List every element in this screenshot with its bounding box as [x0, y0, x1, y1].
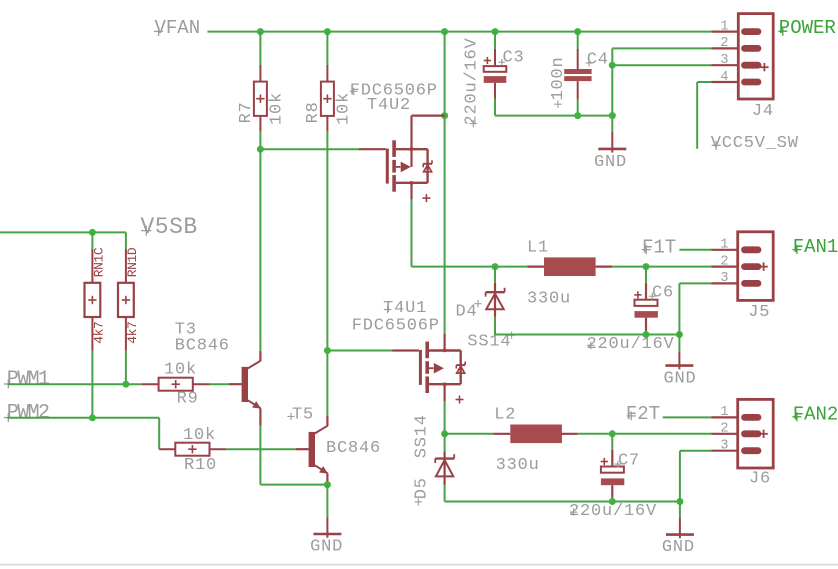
svg-text:T4U1: T4U1	[383, 299, 427, 318]
svg-text:POWER: POWER	[779, 17, 836, 39]
svg-text:FDC6506P: FDC6506P	[352, 316, 440, 335]
label POWER	[778, 17, 836, 39]
node junction RN1C/PWM2	[89, 414, 96, 421]
label T4U2 part FDC6506P	[350, 81, 438, 100]
ground GND4	[666, 502, 694, 539]
svg-text:1: 1	[720, 19, 728, 34]
label T4U1	[383, 299, 427, 318]
wire J4 pin4 VCC5V_SW	[697, 82, 711, 149]
node junction C7 tap	[609, 430, 616, 437]
wire R7 top	[259, 32, 261, 65]
label R9	[177, 389, 199, 408]
transistor U1 T4U2 FDC6506P p-mosfet	[359, 140, 432, 202]
wire L2 output to J6 pin2	[578, 433, 712, 435]
node junction R8/T5/gate	[324, 347, 331, 354]
label C3 value 220u/16V	[462, 37, 481, 127]
svg-text:D5: D5	[413, 477, 432, 499]
wire C4 top	[577, 32, 579, 49]
ground GND1	[598, 132, 626, 153]
wire T4U2 source down	[411, 200, 413, 267]
svg-text:GND: GND	[664, 369, 697, 388]
resistor R9 10k	[142, 378, 210, 391]
label L1 value 330u	[527, 290, 571, 309]
svg-text:L1: L1	[527, 239, 549, 258]
wire GND net vertical	[611, 65, 613, 131]
svg-text:T4U2: T4U2	[367, 96, 411, 115]
svg-text:4: 4	[720, 70, 728, 85]
wire VFAN horizontal bus	[208, 31, 712, 33]
wire D5 top	[444, 434, 446, 452]
connector J6 FAN2 header	[712, 399, 774, 468]
resistor R7	[254, 65, 267, 132]
label L2	[494, 406, 516, 425]
svg-text:330u: 330u	[496, 456, 540, 475]
wire D4 bottom	[495, 317, 679, 335]
label VFAN	[154, 17, 200, 39]
svg-text:GND: GND	[662, 538, 695, 557]
label D4	[456, 300, 482, 321]
label FAN2	[792, 403, 838, 425]
svg-text:GND: GND	[310, 537, 343, 556]
node junction C7 bottom	[609, 498, 616, 505]
svg-text:3: 3	[720, 439, 728, 454]
label D5 value SS14	[413, 414, 432, 458]
label FAN1	[792, 236, 838, 258]
wire L2 input row	[445, 433, 494, 435]
transistor T5 BC846 npn	[296, 416, 328, 482]
node junction C4 bottom	[574, 112, 581, 119]
capacitor C7 (220u/16V electrolytic)	[601, 434, 625, 502]
svg-text:1: 1	[720, 238, 728, 253]
svg-text:J5: J5	[748, 303, 770, 322]
svg-text:R10: R10	[184, 456, 217, 475]
wire D4 top	[494, 267, 496, 283]
node junction GND4 tap	[676, 498, 683, 505]
node junction T5 emitter / GND	[324, 481, 331, 488]
wire T4U1 source down	[444, 401, 446, 434]
diode D4 SS14 schottky	[486, 283, 505, 317]
label C7 value 220u/16V	[569, 502, 657, 521]
transistor T3 BC846 npn	[229, 351, 261, 426]
svg-text:SS14: SS14	[413, 414, 432, 458]
resistor RN1D 4k7	[118, 232, 134, 350]
svg-text:4k7: 4k7	[91, 322, 106, 344]
label RN1C value 4k7	[91, 322, 106, 344]
label F2T	[626, 403, 660, 425]
wire C3 bottom	[495, 99, 612, 116]
wire F1T to J5 pin1	[679, 249, 711, 251]
svg-text:C4: C4	[587, 51, 609, 70]
svg-text:4k7: 4k7	[125, 322, 140, 344]
diode D5 SS14 schottky	[435, 451, 454, 485]
wire R7 bottom	[259, 132, 261, 150]
label C4	[586, 51, 609, 70]
label D5	[413, 477, 432, 505]
node junction D4 tap	[492, 263, 499, 270]
svg-text:VCC5V_SW: VCC5V_SW	[711, 134, 799, 153]
capacitor C4 (100n)	[564, 49, 591, 100]
svg-text:FAN1: FAN1	[793, 236, 838, 258]
svg-text:BC846: BC846	[175, 336, 230, 355]
label T5 part BC846	[326, 439, 381, 458]
svg-text:10k: 10k	[268, 92, 287, 125]
label R7 value 10k	[268, 92, 287, 125]
label T5	[287, 405, 314, 424]
wire J6 pin3 net	[680, 451, 712, 502]
svg-text:R8: R8	[304, 101, 323, 123]
label F1T	[642, 236, 677, 258]
svg-text:FAN2: FAN2	[793, 403, 838, 425]
svg-text:220u/16V: 220u/16V	[587, 335, 675, 354]
wire V5SB row	[0, 231, 126, 233]
label R9 value 10k	[164, 360, 197, 379]
svg-text:J6: J6	[749, 470, 771, 489]
label L2 value 330u	[496, 456, 540, 475]
wire C4 bottom	[577, 100, 579, 116]
node junction T4U2 drain tap	[441, 112, 448, 119]
label T4U1 part FDC6506P	[352, 316, 440, 335]
node junction C3/C4 bottom	[609, 112, 616, 119]
label R10 value 10k	[183, 426, 216, 445]
label PWM2	[4, 402, 49, 425]
connector J5 FAN1 header	[712, 232, 774, 301]
wire D5 bottom	[445, 485, 680, 502]
transistor T4U1 drain lead	[444, 334, 446, 351]
svg-text:D4: D4	[456, 302, 478, 321]
node junction GND net	[609, 62, 616, 69]
svg-text:2: 2	[720, 422, 728, 437]
svg-text:3: 3	[720, 271, 728, 286]
node VFAN junction dots	[257, 28, 581, 35]
node junction GND2 tap	[676, 331, 683, 338]
svg-text:PWM1: PWM1	[7, 368, 50, 391]
label J4	[752, 102, 774, 121]
connector J4 POWER header	[712, 14, 774, 99]
capacitor C3 (220u/16V electrolytic)	[484, 49, 507, 99]
wire J5 pin3 net	[679, 283, 711, 334]
label T3 part BC846	[175, 336, 230, 355]
svg-text:330u: 330u	[527, 290, 571, 309]
capacitor C6 (220u/16V electrolytic)	[634, 267, 658, 335]
label GND2	[664, 369, 697, 388]
ground GND3	[313, 485, 341, 538]
label C6	[649, 283, 674, 302]
wire T4U1 gate net	[327, 350, 392, 352]
wire T3 emitter down	[260, 426, 327, 485]
label D4 value SS14	[467, 332, 515, 352]
svg-text:L2: L2	[494, 406, 516, 425]
wire R9 to T3 base	[210, 383, 229, 385]
label L1	[527, 239, 549, 258]
transistor U2 T4U1 FDC6506P p-mosfet	[392, 342, 465, 404]
node junction C6 bottom	[643, 331, 650, 338]
svg-text:C7: C7	[618, 451, 640, 470]
label RN1D	[125, 247, 140, 277]
wire F2T to J6 pin1	[663, 416, 712, 418]
wire VFAN vertical	[444, 32, 446, 334]
label C4 value 100n	[549, 56, 568, 108]
pin numbers J4	[720, 19, 728, 84]
svg-text:T5: T5	[292, 405, 314, 424]
wire T5 collector up	[326, 351, 328, 417]
node junction C6 tap	[643, 263, 650, 270]
inductor L1 330u	[527, 257, 612, 276]
wire T4U2 gate net	[260, 148, 359, 150]
svg-text:10k: 10k	[164, 360, 197, 379]
label GND1	[594, 153, 627, 172]
node junction RN1D/PWM1	[122, 381, 129, 388]
label J5	[748, 303, 770, 322]
svg-text:220u/16V: 220u/16V	[462, 37, 481, 125]
resistor R10 10k	[159, 443, 226, 456]
svg-text:C3: C3	[503, 48, 525, 67]
label J6	[749, 470, 771, 489]
inductor L2 330u	[494, 425, 578, 444]
svg-text:3: 3	[720, 53, 728, 68]
svg-text:V5SB: V5SB	[141, 214, 198, 240]
label R8 value 10k	[335, 92, 354, 125]
svg-text:100n: 100n	[549, 56, 568, 100]
ground GND2	[665, 335, 693, 370]
transistor T4U2 drain jog	[412, 116, 445, 167]
label R8	[304, 101, 323, 123]
pin numbers J6	[720, 405, 728, 453]
wire L1 input row	[412, 266, 528, 268]
svg-text:RN1C: RN1C	[91, 247, 106, 277]
label GND3	[310, 537, 343, 556]
wire R8 top	[326, 32, 328, 65]
label C3	[499, 48, 525, 67]
resistor RN1C 4k7	[85, 232, 101, 350]
wire PWM1	[8, 383, 142, 385]
wire J4 pin2 to GND net	[612, 48, 711, 65]
label V5SB	[141, 214, 198, 240]
label GND4	[662, 538, 695, 557]
svg-text:2: 2	[720, 254, 728, 269]
label VCC5V_SW	[711, 134, 799, 153]
wire R10 to T5 base	[226, 448, 296, 450]
wire R8 bottom long to T4U1 gate row	[326, 132, 328, 351]
wire T3 collector vertical	[259, 149, 261, 351]
node junction RN1C tap	[89, 229, 96, 236]
label RN1C	[91, 247, 106, 277]
wire L1 output to J5 pin2	[612, 266, 711, 268]
svg-text:1: 1	[720, 405, 728, 420]
wire C3 top	[494, 32, 496, 49]
node junction R7/gate/T3	[257, 146, 264, 153]
svg-text:RN1D: RN1D	[125, 247, 140, 277]
svg-text:10k: 10k	[183, 426, 216, 445]
svg-text:BC846: BC846	[326, 439, 381, 458]
label PWM1	[4, 368, 50, 391]
label T3	[175, 320, 197, 339]
wire RN1C bottom to PWM2	[91, 351, 93, 418]
label T4U2	[367, 96, 411, 115]
svg-text:F1T: F1T	[642, 236, 676, 258]
label R10	[184, 456, 217, 475]
frame bottom edge	[0, 564, 838, 566]
node junction D5 tap	[441, 430, 448, 437]
wire RN1D bottom to PWM1	[125, 351, 127, 384]
svg-text:R9: R9	[177, 389, 199, 408]
svg-text:PWM2: PWM2	[7, 402, 49, 425]
svg-text:2: 2	[720, 36, 728, 51]
svg-text:C6: C6	[652, 283, 674, 302]
svg-text:VFAN: VFAN	[155, 17, 201, 39]
label RN1D value 4k7	[125, 322, 140, 344]
resistor R8	[321, 65, 334, 132]
svg-text:J4: J4	[752, 102, 774, 121]
label C6 value 220u/16V	[587, 335, 675, 354]
wire J4 pin3 to GND net	[612, 64, 711, 66]
svg-text:GND: GND	[594, 153, 627, 172]
svg-text:R7: R7	[237, 101, 256, 123]
pin numbers J5	[720, 238, 728, 287]
label C7	[615, 451, 641, 470]
wire PWM2	[8, 418, 160, 449]
label R7	[237, 101, 256, 123]
